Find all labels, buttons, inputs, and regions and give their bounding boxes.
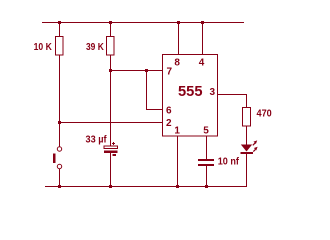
svg-text:3: 3 [210, 87, 216, 98]
svg-text:4: 4 [199, 57, 205, 68]
label C1 polarity plus [112, 142, 115, 145]
junction R1 top / VCC [58, 21, 61, 24]
capacitor C2 bottom plate [198, 164, 214, 166]
junction R2 top / VCC [109, 21, 112, 24]
label R2 value 39 K [86, 42, 104, 53]
junction C1 / ground [109, 185, 112, 188]
svg-text:5: 5 [203, 126, 209, 137]
svg-text:1: 1 [174, 126, 180, 137]
wire S1 to ground rail [59, 169, 60, 186]
pin number 6 [166, 106, 172, 117]
wire VCC top rail [42, 22, 244, 23]
wire pin 7 discharge [110, 70, 163, 71]
junction R1 / S1 / pin 2 node [58, 121, 61, 124]
switch S1 top terminal [57, 147, 61, 151]
label R1 value 10 K [34, 42, 53, 53]
wire R1 top lead [59, 22, 60, 36]
junction pin 4 / VCC [201, 21, 204, 24]
LED D1 anode triangle [241, 145, 252, 152]
svg-text:470: 470 [257, 109, 273, 120]
wire R3 to LED D1 [246, 126, 247, 145]
wire pin 5 lead to C2 [206, 136, 207, 159]
label U1 555 [178, 84, 203, 100]
pin number 8 [174, 57, 180, 68]
pin number 3 [210, 87, 216, 98]
svg-text:6: 6 [166, 106, 172, 117]
label C2 value 10 nf [218, 157, 240, 168]
wire C2 to ground rail [206, 166, 207, 186]
wire ground bottom rail [45, 186, 247, 187]
junction pin 7 / pin 6 branch [145, 69, 148, 72]
capacitor C1 top plate [104, 146, 118, 149]
label C1 value 33 uf [86, 135, 108, 146]
svg-text:2: 2 [166, 118, 172, 129]
resistor R3 body [243, 108, 251, 127]
pin number 4 [199, 57, 205, 68]
LED D1 light arrows [253, 140, 258, 151]
wire pin 3 output horizontal [217, 94, 247, 95]
IC U1 555 body [163, 55, 218, 137]
wire pin 3 to R3 vertical [246, 94, 247, 107]
pin number 5 [203, 126, 209, 137]
capacitor C1 bottom plate [104, 151, 118, 154]
svg-text:33 µf: 33 µf [86, 135, 108, 146]
switch S1 bottom terminal [57, 164, 61, 168]
pin number 1 [174, 126, 180, 137]
wire R2 bottom lead to C1 timing node [110, 55, 111, 146]
junction R2 / pin 7 node [109, 69, 112, 72]
wire pin 4 lead [202, 22, 203, 54]
svg-text:10 K: 10 K [34, 42, 53, 53]
wire R1 bottom lead to switch S1 [59, 55, 60, 147]
pin number 7 [167, 66, 173, 77]
wire C1 to ground rail [110, 153, 111, 186]
wire pin 8 lead [178, 22, 179, 54]
label C1 polarity minus [113, 154, 117, 156]
wire pin 6 branch vertical [146, 70, 147, 110]
svg-text:10 nf: 10 nf [218, 157, 240, 168]
junction pin 1 / ground [176, 185, 179, 188]
capacitor C2 top plate [198, 159, 214, 161]
pin number 2 [166, 118, 172, 129]
wire pin 6 threshold horizontal [146, 109, 163, 110]
junction pin 8 / VCC [177, 21, 180, 24]
junction S1 / ground [58, 185, 61, 188]
label R3 value 470 [257, 109, 273, 120]
svg-text:8: 8 [174, 57, 180, 68]
svg-text:39 K: 39 K [86, 42, 104, 53]
junction C2 / ground [205, 185, 208, 188]
svg-text:7: 7 [167, 66, 173, 77]
wire pin 2 trigger [59, 122, 163, 123]
resistor R2 body [107, 37, 115, 56]
wire R2 top lead [110, 22, 111, 36]
LED D1 cathode bar [241, 152, 254, 154]
wire pin 1 lead to ground [177, 136, 178, 186]
resistor R1 body [56, 37, 64, 56]
wire LED to ground rail [246, 154, 247, 186]
svg-text:555: 555 [178, 84, 203, 100]
switch S1 actuator bar [53, 154, 56, 164]
